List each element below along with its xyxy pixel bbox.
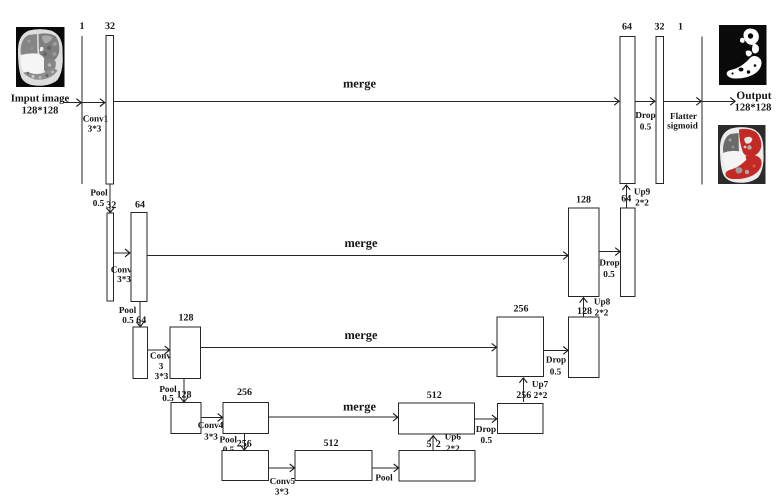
up arrow Up9: [625, 185, 627, 208]
svg-text:2*2: 2*2: [635, 197, 649, 207]
conv block 32 level1 left: [106, 36, 113, 184]
node line 1 right: [701, 36, 703, 184]
svg-text:64: 64: [621, 194, 631, 205]
svg-text:Drop: Drop: [599, 258, 619, 268]
merge line level1: [114, 100, 619, 102]
svg-text:Drop: Drop: [635, 110, 655, 120]
conv block 256 level4 left: [223, 403, 269, 434]
svg-text:Pool: Pool: [119, 305, 137, 315]
svg-text:64: 64: [135, 200, 145, 211]
up arrow Up8: [583, 298, 585, 317]
svg-text:0.5: 0.5: [550, 366, 562, 376]
svg-text:32: 32: [655, 22, 665, 33]
conv block 32 level2 left: [107, 213, 114, 301]
svg-text:512: 512: [324, 438, 339, 449]
input arrow seg2: [82, 102, 105, 104]
conv5 arrow: [269, 467, 295, 469]
conv2 arrow: [114, 252, 130, 254]
pool arrow level5: [372, 467, 398, 469]
conv block 128 level3 right: [569, 317, 600, 378]
svg-text:128: 128: [577, 306, 592, 317]
down arrow pool level3-4: [183, 379, 185, 402]
svg-text:5: 5: [427, 439, 432, 450]
conv block 256 level4 right: [498, 404, 544, 434]
svg-text:0.5: 0.5: [481, 435, 493, 445]
wire 64 to 32 level1: [635, 100, 655, 102]
svg-text:0.5: 0.5: [122, 315, 134, 325]
svg-text:3: 3: [159, 361, 164, 371]
conv block 256 level3 right: [497, 317, 544, 377]
svg-text:3*3: 3*3: [117, 274, 131, 284]
node line 1 left: [81, 36, 83, 184]
conv block 512 level5: [295, 451, 372, 481]
wire line to output: [702, 100, 735, 102]
svg-text:Pool: Pool: [375, 472, 393, 482]
svg-text:Imput image: Imput image: [11, 93, 70, 105]
up arrow Up7: [522, 378, 524, 402]
svg-text:merge: merge: [343, 77, 377, 91]
merge line level4: [269, 416, 398, 418]
output mask image: [719, 25, 767, 85]
svg-text:Output: Output: [736, 90, 771, 102]
svg-text:1: 1: [678, 22, 683, 33]
conv block 64 level2 left: [131, 213, 147, 302]
drop arrow level3: [544, 349, 568, 351]
conv3 arrow: [148, 349, 170, 351]
down arrow pool level4-5: [243, 434, 245, 450]
svg-text:256: 256: [516, 390, 531, 401]
conv block 512 level4 right: [399, 403, 475, 434]
svg-text:0.5: 0.5: [93, 198, 105, 208]
conv block 128 level3 left: [170, 327, 201, 379]
svg-text:merge: merge: [343, 400, 377, 414]
input arrow seg1: [63, 102, 81, 104]
merge line level3: [201, 346, 497, 348]
svg-text:Conv: Conv: [150, 351, 171, 361]
svg-text:256: 256: [514, 304, 529, 315]
svg-text:32: 32: [105, 21, 115, 32]
conv block 128 level2 right: [569, 208, 600, 297]
up arrow Up6: [432, 436, 434, 452]
down arrow pool level2-3: [139, 301, 141, 326]
svg-text:Up9: Up9: [634, 186, 651, 196]
svg-text:128: 128: [576, 195, 591, 206]
svg-text:128*128: 128*128: [735, 103, 772, 114]
svg-text:Conv1: Conv1: [83, 113, 109, 123]
output overlay image: [718, 125, 766, 184]
svg-text:0.5: 0.5: [603, 269, 615, 279]
pooled block level5 right: [399, 451, 475, 482]
conv block 256 level5 left: [222, 451, 269, 481]
svg-text:128: 128: [177, 389, 192, 400]
svg-text:3*3: 3*3: [155, 371, 169, 381]
svg-text:128*128: 128*128: [22, 106, 59, 117]
svg-text:3*3: 3*3: [204, 431, 218, 441]
svg-text:1: 1: [80, 21, 85, 32]
down arrow pool level1-2: [109, 184, 111, 212]
svg-text:merge: merge: [344, 236, 378, 250]
svg-text:32: 32: [106, 200, 116, 211]
svg-text:Conv4: Conv4: [198, 420, 224, 430]
svg-text:Up7: Up7: [532, 379, 549, 389]
svg-text:sigmoid: sigmoid: [667, 121, 698, 132]
conv block 32 level1 right: [656, 36, 664, 183]
conv block 64 level3 left: [133, 327, 148, 379]
svg-text:0.5: 0.5: [640, 122, 652, 132]
input CT image: [16, 27, 65, 87]
conv block 64 level2 right: [621, 208, 636, 297]
svg-text:Up6: Up6: [445, 432, 462, 442]
svg-text:merge: merge: [344, 328, 378, 342]
drop arrow level2: [599, 251, 620, 253]
drop arrow level4: [475, 418, 497, 420]
svg-text:64: 64: [136, 315, 146, 326]
svg-text:Drop: Drop: [476, 424, 496, 434]
svg-text:Drop: Drop: [546, 355, 566, 365]
svg-text:2*2: 2*2: [595, 308, 609, 318]
svg-text:128: 128: [179, 313, 194, 324]
conv block 128 level4 left: [171, 403, 201, 434]
svg-text:256: 256: [237, 387, 252, 398]
conv4 arrow: [201, 417, 222, 419]
merge line level2: [147, 255, 568, 257]
svg-text:Up8: Up8: [594, 297, 611, 307]
svg-text:512: 512: [427, 390, 442, 401]
conv block 64 level1 right: [620, 36, 635, 183]
svg-text:3*3: 3*3: [275, 487, 289, 497]
svg-text:2: 2: [436, 439, 441, 450]
svg-text:256: 256: [237, 439, 252, 450]
svg-text:0.5: 0.5: [162, 393, 174, 403]
svg-text:Conv5: Conv5: [270, 476, 296, 486]
svg-text:3*3: 3*3: [88, 123, 102, 133]
wire 32 to line level1: [664, 100, 701, 102]
svg-text:64: 64: [622, 22, 632, 33]
svg-text:Flatter: Flatter: [670, 111, 697, 121]
svg-text:2*2: 2*2: [534, 390, 548, 400]
svg-text:Pool: Pool: [90, 188, 108, 198]
svg-text:Pool: Pool: [220, 435, 238, 445]
